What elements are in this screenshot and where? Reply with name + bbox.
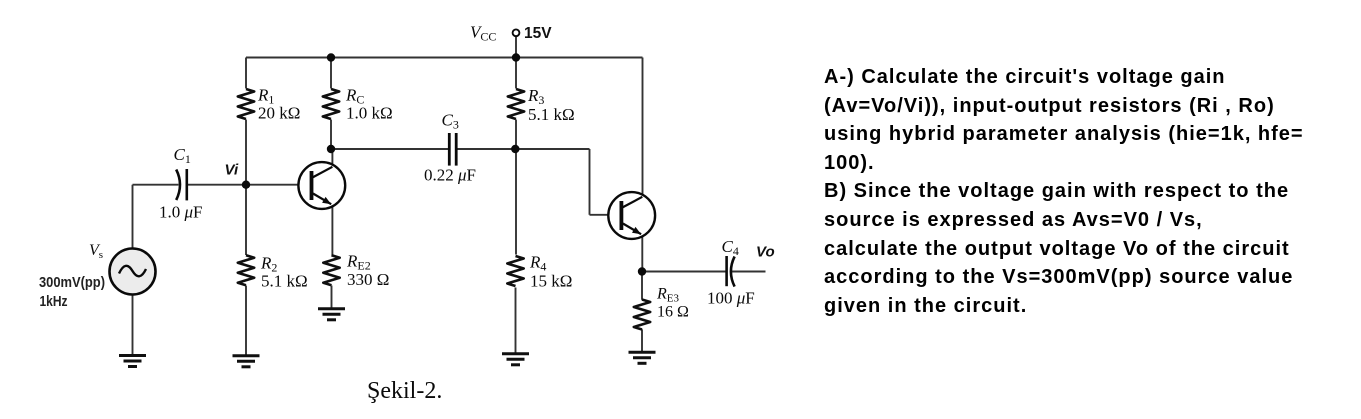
svg-text:C4: C4 (722, 237, 739, 258)
svg-text:Vi: Vi (225, 162, 239, 179)
svg-text:5.1 kΩ: 5.1 kΩ (528, 105, 575, 124)
svg-text:300mV(pp): 300mV(pp) (39, 275, 105, 291)
svg-text:RE3: RE3 (656, 286, 680, 305)
svg-text:15V: 15V (524, 25, 552, 42)
svg-text:16 Ω: 16 Ω (657, 304, 689, 321)
svg-text:Vs: Vs (89, 242, 103, 261)
svg-text:C1: C1 (174, 145, 191, 166)
svg-text:0.22 μF: 0.22 μF (424, 166, 476, 185)
svg-text:Vo: Vo (756, 244, 775, 261)
svg-text:1kHz: 1kHz (40, 294, 68, 310)
svg-text:100 μF: 100 μF (707, 289, 755, 308)
svg-text:20 kΩ: 20 kΩ (258, 104, 300, 123)
svg-text:330 Ω: 330 Ω (347, 270, 389, 289)
svg-text:VCC: VCC (470, 23, 496, 44)
svg-text:5.1 kΩ: 5.1 kΩ (261, 272, 308, 291)
svg-text:15 kΩ: 15 kΩ (530, 272, 572, 291)
svg-text:1.0 kΩ: 1.0 kΩ (346, 104, 393, 123)
svg-text:1.0 μF: 1.0 μF (159, 203, 203, 222)
svg-text:C3: C3 (442, 111, 459, 132)
